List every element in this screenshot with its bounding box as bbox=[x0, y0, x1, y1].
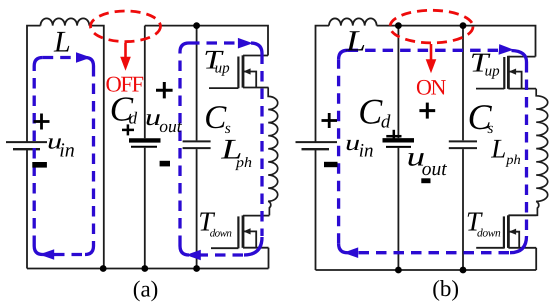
wire: fig(a) C_d branch lower bbox=[144, 148, 146, 269]
svg-text:out: out bbox=[159, 116, 183, 136]
wire: fig(a) top rail right section + right rail upper bbox=[145, 26, 268, 56]
wire: fig(b) C_s branch upper bbox=[462, 26, 464, 141]
red arrow down fig(a) bbox=[120, 43, 131, 71]
node dot fig(a) bottom C_s branch bbox=[193, 265, 200, 272]
capacitor C_s fig(a) bbox=[183, 141, 211, 148]
arrowhead fig(b) loop bottom (left) bbox=[343, 247, 358, 258]
arrowhead loop2 bottom (left) bbox=[186, 250, 201, 261]
wire: fig(b) C_s branch lower bbox=[462, 149, 464, 270]
svg-text:in: in bbox=[359, 141, 374, 162]
minus sign of u_out fig(b) bbox=[421, 178, 430, 183]
svg-text:ph: ph bbox=[505, 152, 521, 167]
svg-text:d: d bbox=[129, 109, 138, 128]
fig(b) loop solid corner arcs bbox=[339, 50, 527, 252]
battery u_in fig(b) bbox=[296, 142, 338, 149]
inductor L_ph fig(b) bbox=[536, 89, 548, 216]
wire: fig(a) right rail lower bbox=[268, 248, 270, 269]
node dot fig(b) top of C_s branch bbox=[460, 22, 467, 29]
svg-text:L: L bbox=[490, 134, 506, 164]
plus sign of u_in fig(a) bbox=[34, 114, 50, 130]
current loop 2 (commutation loop) fig(a) blue dashed edges bbox=[180, 43, 262, 255]
wire: fig(a) C_s branch lower bbox=[196, 149, 198, 268]
inductor L fig(b) bbox=[329, 18, 377, 25]
node dot fig(b) bottom C_s branch bbox=[460, 267, 467, 274]
minus sign of u_out fig(a) bbox=[160, 161, 170, 167]
svg-text:L: L bbox=[53, 26, 71, 59]
battery u_in fig(a) bbox=[6, 142, 47, 149]
svg-text:d: d bbox=[381, 112, 391, 133]
wire: fig(a) left rail upper + top-left corner bbox=[27, 26, 41, 142]
svg-text:(b): (b) bbox=[432, 276, 459, 301]
polarity plus of C_d fig(b) bbox=[386, 130, 401, 142]
current loop 1 solid corner arcs bbox=[34, 58, 93, 255]
arrowhead fig(b) loop top (right) bbox=[499, 44, 514, 55]
wire: fig(a) C_s branch upper bbox=[196, 26, 198, 141]
svg-text:up: up bbox=[215, 60, 231, 76]
minus sign of u_in fig(b) bbox=[324, 162, 338, 167]
wire: fig(b) right rail lower bbox=[535, 248, 537, 270]
svg-text:L: L bbox=[345, 25, 366, 57]
red arrow down fig(b) bbox=[426, 44, 437, 73]
arrowhead loop2 top (right) bbox=[238, 38, 253, 49]
wire: fig(a) C_d branch upper bbox=[144, 26, 146, 139]
svg-text:down: down bbox=[210, 227, 233, 239]
arrowhead loop1 top (right) bbox=[76, 52, 91, 63]
node dot fig(b) top of C_d branch bbox=[395, 22, 402, 29]
wire: fig(b) left rail lower bbox=[315, 149, 317, 270]
wire: fig(a) top rail to switch gap + branch down to bottom rail bbox=[89, 26, 104, 269]
svg-text:C: C bbox=[358, 91, 383, 131]
plus sign of u_in fig(b) bbox=[322, 113, 338, 128]
wire: fig(a) left rail lower bbox=[26, 149, 28, 268]
svg-text:(a): (a) bbox=[133, 276, 159, 301]
wire: fig(b) bottom rail bbox=[316, 269, 537, 271]
inductor L fig(a) bbox=[41, 18, 90, 25]
svg-text:in: in bbox=[59, 139, 75, 161]
plus sign of u_out fig(b) bbox=[419, 103, 435, 119]
wire: fig(b) C_d branch upper bbox=[397, 26, 399, 139]
svg-text:ON: ON bbox=[416, 74, 446, 99]
inductor L_ph fig(a) bbox=[268, 88, 278, 216]
current loop (on-state) fig(b) blue dashed edges bbox=[339, 50, 527, 252]
minus sign of u_in fig(a) bbox=[32, 162, 47, 168]
node dot fig(a) bottom C_d branch bbox=[141, 265, 148, 272]
red dashed ellipse: switch-off highlight fig(a) bbox=[91, 11, 161, 42]
wire: fig(b) top rail right of inductor + right rail upper bbox=[377, 26, 536, 57]
svg-text:down: down bbox=[477, 227, 501, 239]
transistor T_down fig(b) bbox=[476, 215, 536, 248]
wire: fig(b) C_d branch lower bbox=[397, 148, 399, 270]
transistor T_up fig(b) bbox=[476, 56, 536, 89]
capacitor C_d fig(b) electrolytic bbox=[383, 140, 415, 147]
svg-text:out: out bbox=[422, 159, 448, 180]
transistor T_up fig(a) bbox=[209, 55, 269, 88]
current loop 1 (input loop) fig(a) blue dashed edges bbox=[34, 58, 93, 255]
arrowhead loop1 bottom (left) bbox=[39, 249, 54, 260]
transistor T_down fig(a) bbox=[211, 215, 269, 248]
node dot fig(a) top of C_s branch bbox=[193, 22, 200, 29]
wire: fig(b) left rail upper + top-left corner bbox=[316, 26, 330, 142]
svg-text:up: up bbox=[485, 64, 501, 80]
current loop 2 solid corner arcs bbox=[180, 43, 262, 255]
svg-text:ph: ph bbox=[235, 155, 252, 171]
polarity plus of C_d fig(a) bbox=[122, 124, 134, 135]
wire: fig(a) bottom rail bbox=[27, 268, 269, 270]
plus sign of u_out fig(a) bbox=[156, 82, 173, 98]
capacitor C_s fig(b) bbox=[449, 141, 477, 148]
node dot fig(b) bottom C_d branch bbox=[395, 267, 402, 274]
red dashed ellipse: switch-on highlight fig(b) bbox=[390, 10, 473, 43]
capacitor C_d fig(a) electrolytic bbox=[129, 140, 161, 146]
node dot fig(a) bottom switch branch bbox=[100, 265, 107, 272]
